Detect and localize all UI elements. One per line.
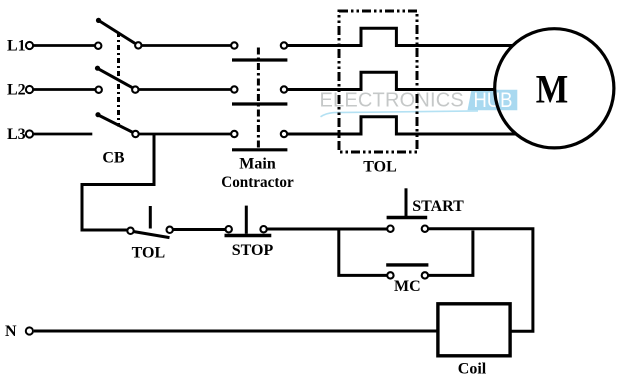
wire MC contact up to main run	[429, 231, 473, 276]
wire branch down to MC contact	[339, 229, 387, 275]
terminal L3	[26, 130, 33, 137]
svg-text:TOL: TOL	[363, 159, 397, 176]
svg-text:L3: L3	[7, 126, 26, 143]
START pushbutton (NO)	[387, 188, 428, 232]
coil box	[438, 304, 510, 356]
main contactor pole 2	[231, 86, 287, 104]
wire CB pole1 to contactor	[142, 44, 231, 47]
svg-text:ELECTRONICS: ELECTRONICS	[320, 90, 464, 112]
svg-text:STOP: STOP	[232, 242, 274, 259]
svg-text:Contractor: Contractor	[221, 174, 294, 191]
svg-text:L2: L2	[7, 82, 26, 99]
svg-text:TOL: TOL	[132, 245, 166, 262]
watermark ElectronicsHub logo	[320, 89, 518, 117]
contactor mechanical linkage (dash-dot)	[257, 48, 260, 149]
TOL NC contact (control circuit)	[127, 206, 173, 238]
wire CB pole3 to contactor (with control tap junction)	[139, 133, 231, 136]
wire contactor pole3 to motor through TOL heater 3	[288, 117, 516, 134]
terminal N	[26, 327, 33, 334]
motor body fill	[495, 29, 614, 148]
terminal L1	[26, 42, 33, 49]
svg-text:MC: MC	[394, 278, 421, 295]
motor M	[495, 29, 614, 148]
svg-text:HUB: HUB	[474, 89, 513, 112]
svg-text:M: M	[536, 67, 569, 112]
main contactor pole 3	[231, 131, 287, 150]
circuit breaker CB pole 3	[95, 112, 138, 137]
main contactor pole 1	[231, 42, 287, 60]
wire STOP to START	[267, 228, 387, 231]
CB mechanical linkage (dash-dot)	[117, 32, 120, 127]
TOL overload box (dash-dot rectangle)	[339, 11, 417, 152]
terminal L2	[26, 86, 33, 93]
wire L2 to CB	[33, 88, 95, 91]
svg-text:START: START	[412, 198, 464, 215]
circuit breaker CB pole 1	[95, 18, 142, 49]
svg-text:Coil: Coil	[458, 361, 487, 378]
svg-text:N: N	[5, 323, 17, 340]
wire L1 to CB	[33, 44, 94, 47]
svg-text:L1: L1	[7, 38, 26, 55]
svg-text:CB: CB	[102, 150, 125, 167]
svg-text:Main: Main	[239, 156, 276, 173]
wire control tap from L3 down and left	[82, 134, 154, 230]
wire START to coil drop	[429, 229, 533, 332]
wire contactor pole2 to motor through TOL heater 2	[288, 72, 495, 89]
MC auxiliary contact (NO)	[386, 265, 428, 279]
wire contactor pole1 to motor through TOL heater 1	[288, 28, 513, 45]
wire N to coil	[34, 330, 438, 333]
wire CB pole2 to contactor	[139, 88, 231, 91]
Main Contractor label	[221, 156, 294, 192]
wire L3 to CB	[33, 133, 92, 136]
wire TOL contact to STOP	[173, 228, 225, 231]
circuit breaker CB pole 2	[95, 66, 139, 93]
STOP pushbutton (NC)	[225, 206, 272, 236]
